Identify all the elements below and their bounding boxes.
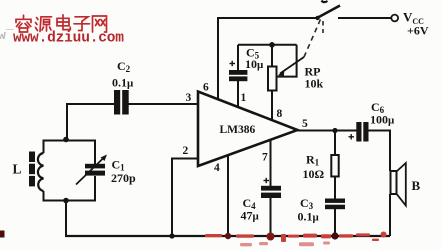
- svg-text:B: B: [412, 178, 421, 193]
- svg-text:w¯: w¯: [0, 28, 14, 43]
- svg-text:10Ω: 10Ω: [303, 167, 325, 181]
- svg-text:0.1μ: 0.1μ: [112, 76, 134, 90]
- svg-text:5: 5: [302, 118, 308, 130]
- svg-text:R1: R1: [306, 153, 320, 168]
- svg-text:100μ: 100μ: [370, 113, 395, 127]
- svg-text:C2: C2: [117, 59, 131, 74]
- svg-text:47μ: 47μ: [241, 209, 260, 223]
- svg-text:10μ: 10μ: [245, 57, 264, 71]
- svg-text:8: 8: [277, 108, 283, 120]
- svg-text:LM386: LM386: [220, 124, 256, 136]
- svg-text:L: L: [13, 162, 22, 177]
- svg-text:7: 7: [262, 152, 268, 164]
- svg-text:+6V: +6V: [407, 24, 429, 38]
- svg-text:6: 6: [203, 82, 209, 94]
- svg-text:2: 2: [183, 145, 189, 157]
- svg-text:0.1μ: 0.1μ: [298, 210, 320, 224]
- svg-text:www.dziuu.com: www.dziuu.com: [13, 31, 124, 47]
- svg-text:270p: 270p: [111, 171, 136, 185]
- svg-text:1: 1: [241, 92, 247, 104]
- svg-text:10k: 10k: [305, 77, 324, 91]
- svg-text:4: 4: [214, 162, 220, 174]
- svg-text:3: 3: [186, 92, 192, 104]
